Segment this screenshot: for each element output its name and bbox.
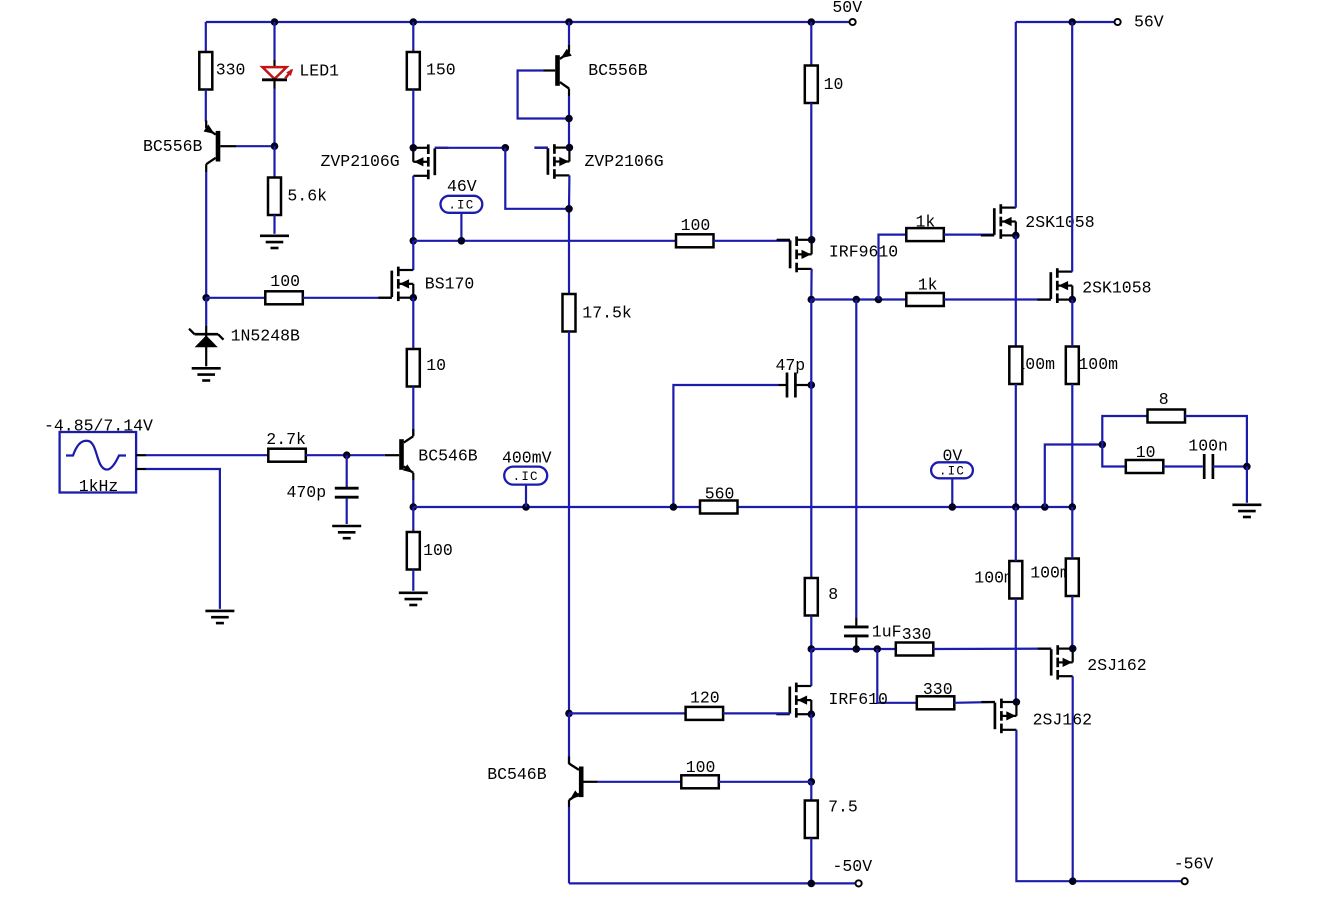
svg-text:IRF610: IRF610	[829, 690, 888, 709]
wire 50V rail to BC556B2 emitter	[568, 22, 570, 46]
svg-text:330: 330	[923, 680, 953, 699]
resistor 8 (output)	[1148, 410, 1186, 423]
node junction zobel ground	[1243, 463, 1251, 471]
wire R5.6k to ground	[273, 215, 275, 234]
svg-text:150: 150	[426, 61, 456, 80]
wire drain node down to BS170	[412, 241, 414, 270]
svg-text:BS170: BS170	[425, 275, 475, 294]
svg-text:100: 100	[270, 272, 300, 291]
svg-text:ZVP2106G: ZVP2106G	[321, 152, 400, 171]
wire 120 to IRF610 gate	[723, 712, 790, 714]
wire 100m#4 to 2SJ162#1 source	[1071, 596, 1073, 649]
node junction 470p	[343, 451, 351, 459]
wire drain node to R100b	[413, 240, 676, 242]
wire IRF9610 drain down to R8	[810, 300, 812, 579]
svg-text:10: 10	[426, 356, 446, 375]
label 100m #4	[1030, 564, 1070, 583]
label 100m #1	[1015, 355, 1055, 374]
ground zobel	[1232, 505, 1261, 517]
wire ZVP2106G M1 drain down to BS170 drain	[412, 176, 414, 241]
label 7.5	[828, 798, 858, 817]
resistor 100 (feedback)	[681, 775, 719, 788]
label 2SK1058 M5	[1025, 213, 1094, 232]
wire 50V rail to R330	[205, 22, 207, 52]
wire 56V rail	[1016, 21, 1115, 23]
resistor 100m #1	[1009, 347, 1022, 385]
wire 1k#1 to 2SK1058#1 gate	[944, 234, 995, 236]
svg-text:120: 120	[690, 689, 720, 708]
resistor 330	[199, 52, 212, 90]
node junction 100m#1 bottom	[1012, 503, 1020, 511]
wire R100 to BS170 gate	[303, 297, 392, 299]
wire BC556B2 base loop	[518, 71, 569, 119]
node junction 47p drain	[808, 381, 816, 389]
node junction gates net	[502, 144, 510, 152]
label 100n	[1188, 436, 1228, 455]
wire BC546B2 base to R100d	[598, 781, 682, 783]
wire source to 2.7k	[146, 454, 268, 456]
wire R100b to IRF9610 gate	[714, 240, 790, 242]
label 0V	[943, 446, 963, 465]
svg-text:7.5: 7.5	[828, 798, 858, 817]
label 330 lower	[923, 680, 953, 699]
svg-text:470p: 470p	[287, 483, 327, 502]
svg-text:100n: 100n	[1188, 436, 1228, 455]
node junction IRF9610 drain	[808, 296, 816, 304]
svg-text:2SK1058: 2SK1058	[1025, 213, 1094, 232]
label 100 emitter resistor	[423, 541, 453, 560]
wire 17.5k long down to BC546B2 collector	[568, 332, 570, 714]
svg-text:10: 10	[824, 75, 844, 94]
label 10 drain resistor	[824, 75, 844, 94]
svg-text:.IC: .IC	[448, 199, 474, 213]
label 56V	[1134, 13, 1164, 32]
node junction 1k branch	[875, 296, 883, 304]
node junction 1uF branch	[853, 296, 861, 304]
wire R10 to BC546B collector	[412, 387, 414, 436]
wire output mid rail	[413, 506, 1072, 508]
svg-text:50V: 50V	[832, 0, 862, 17]
resistor 7.5	[805, 801, 818, 839]
label BS170	[425, 275, 475, 294]
svg-text:BC556B: BC556B	[588, 61, 648, 80]
svg-text:100m: 100m	[1078, 355, 1118, 374]
node junction zobel branch	[1041, 503, 1049, 511]
node junction 47p branch	[670, 503, 678, 511]
label 1k lower	[918, 276, 938, 295]
wire R100c to ground	[412, 570, 414, 591]
label 470p	[287, 483, 327, 502]
label 50V	[832, 0, 862, 17]
node junction mid rail left end	[410, 503, 418, 511]
svg-text:2.7k: 2.7k	[266, 430, 306, 449]
wire 100m#3 to 2SJ162#2 source	[1015, 599, 1017, 703]
wire R7.5 to -50V rail	[810, 838, 812, 883]
resistor 100m #3	[1009, 561, 1022, 599]
wire BC556B2 collector down	[568, 96, 570, 148]
label BC556B Q1	[143, 137, 203, 156]
label 120	[690, 689, 720, 708]
resistor 120	[686, 707, 724, 720]
source V1 sine 1kHz box	[60, 432, 137, 493]
label 1k upper	[916, 212, 936, 231]
label -4.85/7.14V	[44, 416, 153, 435]
transistor BC546B Q3 (NPN input)	[385, 429, 414, 480]
resistor 100 (BS170 gate)	[265, 291, 303, 304]
wire mid rail to 100m#3	[1015, 507, 1017, 561]
wire BC556B collector down to zener node	[205, 172, 207, 298]
wire node to R5.6k	[273, 146, 275, 177]
resistor 5.6k	[268, 178, 281, 216]
annotation .IC 400mV bubble	[504, 467, 547, 485]
svg-text:560: 560	[705, 484, 735, 503]
transistor IRF9610 M4 (P-MOSFET)	[777, 236, 816, 272]
wire BC556B base to LED column	[236, 145, 275, 147]
terminal 56V	[1115, 19, 1121, 25]
wire M2 gate lead	[535, 147, 548, 149]
terminal 50V	[850, 19, 856, 25]
wire 470p to ground	[346, 498, 348, 524]
wire R8 to gate-drive node	[810, 616, 812, 650]
wire 2SK1058#2 drain up to 56V	[1071, 22, 1073, 272]
label 8 output	[1159, 390, 1169, 409]
node junction base/5.6k	[271, 142, 279, 150]
svg-text:8: 8	[828, 585, 838, 604]
wire drain node right	[811, 298, 906, 300]
wire 100m#1 to mid rail	[1015, 384, 1017, 507]
wire 100m#2 to mid rail	[1071, 384, 1073, 507]
svg-text:100: 100	[681, 216, 711, 235]
ground source	[205, 611, 234, 623]
diode zener 1N5248B	[189, 326, 224, 366]
svg-text:400mV: 400mV	[502, 449, 552, 468]
wire 2.7k to base node	[306, 454, 385, 456]
label 2.7k	[266, 430, 306, 449]
label 5.6k	[287, 186, 327, 205]
ground below emitter resistor	[399, 593, 428, 605]
node junction LED1 column on 50V rail	[271, 18, 279, 26]
wire IRF610 drain	[810, 649, 812, 686]
svg-text:BC556B: BC556B	[143, 137, 203, 156]
label 1kHz	[79, 477, 119, 496]
wire mid-rail to 47p	[673, 385, 778, 507]
wire mid rail to 100m#4	[1071, 507, 1073, 559]
node junction IRF610 source / 100	[808, 778, 816, 786]
transistor BC556B Q2 (PNP diode-connected)	[544, 45, 572, 96]
node junction M1 drain / 100 wire	[410, 237, 418, 245]
resistor 2.7k	[268, 449, 306, 462]
svg-text:1k: 1k	[918, 276, 938, 295]
transistor 2SJ162 M9 (P-MOSFET)	[981, 698, 1020, 733]
resistor 100m #4	[1066, 559, 1079, 597]
node junction BC556B column on 50V rail	[565, 18, 573, 26]
label -50V	[833, 857, 873, 876]
wire .IC 46V stub	[460, 213, 462, 241]
label -56V	[1174, 855, 1214, 874]
capacitor 470p	[335, 488, 359, 497]
transistor BS170 M3 (N-MOSFET)	[378, 267, 417, 302]
wire emitter node to R100c	[412, 507, 414, 532]
svg-text:46V: 46V	[447, 177, 477, 196]
terminal -50V	[856, 880, 862, 886]
node junction 100m#2 bottom	[1069, 503, 1077, 511]
node junction 2SK1058 column on 56V rail	[1068, 18, 1076, 26]
wire 100n to ground node	[1213, 465, 1247, 467]
capacitor 100n	[1204, 454, 1213, 479]
wire gate-drive rail	[811, 648, 896, 650]
node junction .IC 0V	[949, 503, 957, 511]
label IRF610	[829, 690, 888, 709]
capacitor 47p	[779, 373, 809, 398]
wire ZVP2106G M1 gate to gates net	[435, 147, 506, 149]
wire 47p to IRF9610 drain column	[808, 384, 811, 386]
resistor 1k (lower)	[906, 293, 944, 306]
resistor 10 (drain)	[805, 66, 818, 104]
node junction 7.5 on -50V rail	[808, 880, 816, 888]
svg-text:1kHz: 1kHz	[79, 477, 119, 496]
label ZVP2106G M2	[585, 152, 664, 171]
wire gates net down to M2 drain	[505, 148, 569, 209]
node junction 1uF bottom	[853, 645, 861, 653]
node junction 330#2 branch	[874, 645, 882, 653]
wire source plus lead	[136, 454, 146, 456]
wire 330#2 to 2SJ162#2 gate	[954, 701, 995, 704]
transistor IRF610 M7 (N-MOSFET)	[776, 683, 815, 718]
svg-text:IRF9610: IRF9610	[829, 242, 898, 261]
resistor 150	[407, 52, 420, 90]
svg-text:10: 10	[1136, 443, 1156, 462]
wire M2 drain down	[568, 175, 571, 294]
svg-text:100m: 100m	[1030, 564, 1070, 583]
svg-text:-56V: -56V	[1174, 855, 1214, 874]
wire 8 ohm to ground corner	[1185, 416, 1247, 467]
label 1N5248B	[231, 327, 300, 346]
wire 1uF column	[855, 300, 857, 619]
label 400mV	[502, 449, 552, 468]
resistor 100m #2	[1066, 347, 1079, 385]
svg-text:ZVP2106G: ZVP2106G	[585, 152, 664, 171]
annotation .IC 0V bubble	[931, 462, 973, 478]
svg-text:1uF: 1uF	[872, 622, 902, 641]
node junction 120 branch	[565, 710, 573, 718]
wire zener node to R100	[206, 297, 265, 299]
node junction 150-resistor column on 50V rail	[410, 18, 418, 26]
svg-text:1N5248B: 1N5248B	[231, 327, 300, 346]
ground below 470p	[332, 526, 361, 538]
wire 330#1 to 2SJ162#1 gate	[933, 647, 1051, 650]
wire 2SK1058#1 source to 100m#1	[1015, 235, 1017, 346]
svg-text:17.5k: 17.5k	[582, 304, 632, 323]
transistor 2SK1058 M6 (N-MOSFET)	[1037, 268, 1076, 303]
label 100m #2	[1078, 355, 1118, 374]
transistor ZVP2106G M2 (P-MOSFET)	[534, 144, 573, 179]
label 17.5k	[582, 304, 632, 323]
resistor 17.5k	[563, 294, 576, 332]
wire +50V top rail	[206, 21, 850, 23]
wire source node to R7.5	[810, 782, 812, 801]
svg-text:BC546B: BC546B	[487, 765, 547, 784]
svg-text:100: 100	[686, 758, 716, 777]
svg-text:-4.85/7.14V: -4.85/7.14V	[44, 416, 153, 435]
wire 50V rail to R150	[412, 22, 414, 52]
label LED1	[299, 62, 339, 81]
wire 50V rail to R10b	[810, 22, 812, 66]
LED LED1	[262, 60, 293, 89]
label 330 upper	[902, 625, 932, 644]
svg-text:2SJ162: 2SJ162	[1033, 711, 1092, 730]
svg-text:5.6k: 5.6k	[287, 186, 327, 205]
node junction .IC 400mV stub	[522, 503, 530, 511]
svg-text:-50V: -50V	[833, 857, 873, 876]
label 1uF	[872, 622, 902, 641]
capacitor 1uF	[844, 618, 869, 649]
label 330	[216, 61, 246, 80]
label 100 gate resistor	[270, 272, 300, 291]
wire 2SJ162#1 drain to -56V rail	[1072, 676, 1074, 881]
resistor 100 (emitter)	[407, 532, 420, 570]
svg-text:.IC: .IC	[513, 470, 539, 484]
wire 330#2 branch down	[877, 649, 917, 703]
wire 10 ohm to 100n	[1164, 465, 1203, 467]
svg-text:8: 8	[1159, 390, 1169, 409]
svg-text:2SJ162: 2SJ162	[1087, 656, 1146, 675]
wire 50V rail to LED1	[273, 22, 275, 60]
wire R100d to IRF610 source node	[719, 781, 812, 783]
svg-text:BC546B: BC546B	[418, 447, 478, 466]
node junction gate-drive node	[808, 645, 816, 653]
label 2SJ162 M9	[1033, 711, 1092, 730]
label 2SJ162 M8	[1087, 656, 1146, 675]
label 10 zobel	[1136, 443, 1156, 462]
label ZVP2106G M1	[321, 152, 400, 171]
transistor 2SJ162 M8 (P-MOSFET)	[1038, 645, 1077, 680]
node junction 10-resistor column on 50V rail	[808, 18, 816, 26]
wire BC546B emitter to output-mid rail	[412, 480, 414, 507]
label 10 source resistor	[426, 356, 446, 375]
svg-text:100m: 100m	[974, 569, 1014, 588]
svg-text:47p: 47p	[776, 356, 806, 375]
wire source minus to ground	[146, 469, 220, 609]
wire LED1 to base node	[273, 89, 275, 147]
wire 120 branch	[569, 712, 686, 714]
resistor 1k (upper)	[906, 228, 944, 241]
wire IRF9610 drain down	[810, 269, 812, 300]
resistor 330 (2SJ162#2 gate)	[917, 696, 955, 709]
wire 470p branch	[346, 455, 348, 488]
wire R330 to BC556B emitter	[205, 90, 207, 122]
resistor 10 (BS170 source)	[407, 349, 420, 387]
wire to 10 ohm	[1102, 445, 1126, 467]
wire .IC 0V stub	[951, 478, 953, 507]
resistor 330 (2SJ162#1 gate)	[896, 643, 934, 656]
transistor BC546B Q4 (NPN, mirrored)	[569, 757, 598, 808]
label BC546B Q3	[418, 447, 478, 466]
label 560	[705, 484, 735, 503]
wire -50V rail	[569, 882, 856, 884]
wire 2SJ162#2 drain to -56V rail	[1016, 730, 1181, 881]
wire up to 1k #1	[879, 235, 907, 300]
resistor 100 (IRF9610 gate)	[676, 234, 714, 247]
wire IRF610 source down	[810, 714, 812, 782]
wire collector column to BC546B2	[568, 713, 570, 764]
annotation .IC 46V bubble	[441, 196, 483, 213]
wire 2SK1058#2 source to 100m#2	[1071, 300, 1073, 347]
label 100m #3	[974, 569, 1014, 588]
svg-text:56V: 56V	[1134, 13, 1164, 32]
label 2SK1058 M6	[1082, 279, 1151, 298]
svg-text:1k: 1k	[916, 212, 936, 231]
node junction -56V rail	[1069, 877, 1077, 885]
wire BC546B2 emitter to -50V rail	[568, 807, 570, 883]
ground below 5.6k	[260, 236, 289, 248]
label 100 feedback	[686, 758, 716, 777]
wire zobel ground down	[1246, 467, 1248, 503]
wire .IC 400mV stub	[525, 485, 527, 507]
wire 2SK1058#1 drain up to 56V	[1015, 22, 1017, 208]
resistor 10 (zobel)	[1126, 460, 1164, 473]
resistor 560	[700, 501, 738, 514]
svg-text:2SK1058: 2SK1058	[1082, 279, 1151, 298]
svg-text:.IC: .IC	[939, 465, 965, 479]
transistor 2SK1058 M5 (N-MOSFET)	[981, 204, 1020, 239]
wire BS170 source to R10	[412, 298, 414, 349]
label IRF9610	[829, 242, 898, 261]
resistor 8 (IRF610 drain)	[805, 578, 818, 616]
terminal -56V	[1182, 878, 1188, 884]
label 150	[426, 61, 456, 80]
svg-text:330: 330	[216, 61, 246, 80]
wire source minus lead	[136, 468, 146, 470]
node junction zobel split	[1099, 441, 1107, 449]
label 100 IRF9610 gate	[681, 216, 711, 235]
wire zener node to zener	[205, 298, 207, 326]
label BC546B Q4	[487, 765, 547, 784]
node junction base/collector tie	[565, 115, 573, 123]
wire 1k#2 to 2SK1058#2 gate	[944, 298, 1051, 300]
node junction .IC 46V	[458, 237, 466, 245]
svg-text:0V: 0V	[943, 446, 963, 465]
svg-text:100: 100	[423, 541, 453, 560]
wire R150 to ZVP2106G source	[412, 90, 414, 148]
ground below zener	[192, 368, 221, 380]
node junction zener/100 node	[202, 294, 210, 302]
label 8 drain	[828, 585, 838, 604]
label BC556B Q2	[588, 61, 648, 80]
label 46V	[447, 177, 477, 196]
svg-text:330: 330	[902, 625, 932, 644]
node junction M2 drain node	[565, 205, 573, 213]
wire zobel branch up	[1045, 445, 1103, 508]
wire R10b to IRF9610 source	[810, 103, 812, 240]
wire to 8 ohm	[1102, 416, 1147, 445]
label 47p	[776, 356, 806, 375]
transistor BC556B Q1 (PNP)	[204, 121, 236, 173]
transistor ZVP2106G M1 (P-MOSFET, mirrored)	[410, 144, 449, 179]
svg-text:LED1: LED1	[299, 62, 339, 81]
